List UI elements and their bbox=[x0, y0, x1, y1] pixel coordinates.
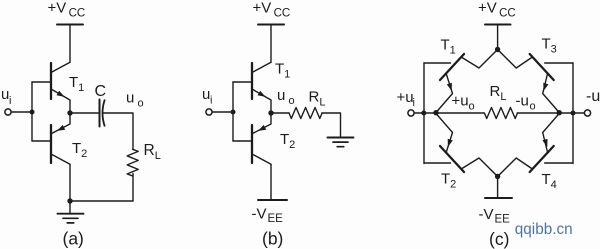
label -VEE (b) bbox=[252, 206, 284, 226]
label -u (c) bbox=[586, 88, 600, 105]
wire vertex to RL (c) bbox=[436, 112, 484, 114]
wire RL to bottom (a) bbox=[132, 174, 134, 202]
resistor RL (c) bbox=[484, 108, 517, 119]
wire left input bus (c) bbox=[423, 63, 425, 164]
wire top node to T3 (c) bbox=[498, 50, 532, 69]
wire input terminal (a) bbox=[11, 111, 32, 113]
wire T2 collector to VEE (b) bbox=[270, 164, 272, 200]
svg-text:-VEE: -VEE bbox=[479, 206, 511, 226]
junction right vertex (c) bbox=[557, 110, 562, 115]
svg-text:+VCC: +VCC bbox=[478, 0, 516, 20]
label u_i (a) bbox=[1, 86, 11, 107]
watermark qqibb.cn bbox=[515, 221, 573, 238]
junction emitter node (a) bbox=[67, 110, 72, 115]
resistor RL (a) bbox=[127, 149, 138, 176]
svg-text:i: i bbox=[413, 97, 415, 109]
wire T3 base lead (c) bbox=[545, 62, 573, 64]
power rail +VCC (c) bbox=[485, 24, 511, 26]
label RL (a) bbox=[144, 142, 161, 162]
svg-text:u: u bbox=[126, 90, 134, 107]
junction left bus node (c) bbox=[421, 111, 426, 116]
svg-text:(a): (a) bbox=[63, 229, 84, 249]
svg-text:o: o bbox=[530, 101, 536, 113]
terminal -u_i (c) bbox=[584, 110, 590, 116]
svg-text:i: i bbox=[9, 95, 11, 107]
svg-text:T4: T4 bbox=[542, 171, 557, 191]
svg-text:-u: -u bbox=[516, 93, 529, 110]
wire input bus (b) bbox=[232, 82, 234, 141]
junction top node (c) bbox=[495, 47, 500, 52]
transistor T4 (c) bbox=[530, 114, 560, 173]
svg-text:T2: T2 bbox=[441, 171, 456, 191]
wire T2 base lead (a) bbox=[32, 140, 51, 142]
svg-text:+u: +u bbox=[452, 93, 469, 110]
svg-text:-u: -u bbox=[586, 88, 600, 105]
label RL (b) bbox=[309, 89, 326, 109]
power rail -VEE (c) bbox=[485, 197, 512, 199]
ground (b) bbox=[328, 138, 354, 147]
power rail +VCC (b) bbox=[258, 24, 284, 26]
svg-text:RL: RL bbox=[309, 89, 326, 109]
junction bottom node (a) bbox=[67, 198, 72, 203]
capacitor C (a) bbox=[100, 100, 105, 127]
terminal u_i (a) bbox=[5, 109, 11, 115]
label RL (c) bbox=[490, 83, 507, 103]
label +VCC (c) bbox=[478, 0, 516, 20]
wire node to ground (a) bbox=[69, 201, 71, 214]
svg-text:o: o bbox=[289, 95, 295, 107]
junction right bus node (c) bbox=[571, 111, 576, 116]
svg-text:+u: +u bbox=[397, 89, 414, 106]
wire RL to right vertex (c) bbox=[517, 112, 559, 114]
label T4 (c) bbox=[542, 171, 557, 191]
label T2 (b) bbox=[280, 131, 295, 151]
ground (a) bbox=[58, 214, 84, 223]
wire right input bus (c) bbox=[572, 63, 574, 164]
wire RL to ground (b) bbox=[322, 113, 341, 137]
label C (a) bbox=[95, 83, 107, 100]
transistor T3 (c) bbox=[530, 54, 560, 113]
power rail -VEE (b) bbox=[258, 199, 287, 201]
wire VCC to T1 collector (a) bbox=[69, 25, 71, 63]
transistor T1 (c) bbox=[436, 54, 464, 113]
svg-text:T2: T2 bbox=[72, 140, 87, 160]
wire bottom node to T4 (c) bbox=[498, 158, 532, 177]
label (a) bbox=[63, 229, 84, 249]
wire T4 base lead (c) bbox=[545, 162, 573, 164]
svg-text:T2: T2 bbox=[280, 131, 295, 151]
wire input terminal (b) bbox=[212, 111, 233, 113]
transistor T1 (b) bbox=[252, 62, 271, 113]
svg-text:+VCC: +VCC bbox=[253, 0, 291, 20]
terminal +u_i (c) bbox=[408, 110, 414, 116]
transistor T2 (b) bbox=[252, 113, 271, 164]
terminal u_i (b) bbox=[206, 109, 212, 115]
wire T1 base lead (a) bbox=[32, 81, 51, 83]
transistor T2 (c) bbox=[436, 114, 464, 173]
label -u_o (c) bbox=[516, 93, 536, 113]
resistor RL (b) bbox=[289, 108, 322, 119]
transistor T2 (a) bbox=[51, 113, 70, 164]
label +u_i (c) bbox=[397, 89, 415, 109]
wire T2 collector (a) bbox=[69, 164, 71, 201]
label T1 (a) bbox=[69, 74, 84, 94]
label T2 (a) bbox=[72, 140, 87, 160]
label T3 (c) bbox=[542, 36, 557, 56]
svg-text:o: o bbox=[138, 98, 144, 110]
svg-text:i: i bbox=[210, 95, 212, 107]
junction bottom node (c) bbox=[495, 174, 500, 179]
svg-text:RL: RL bbox=[490, 83, 507, 103]
label +VCC (b) bbox=[253, 0, 291, 20]
svg-text:C: C bbox=[95, 83, 107, 100]
wire input bus (a) bbox=[31, 82, 33, 141]
junction left vertex (c) bbox=[433, 110, 438, 115]
svg-text:(c): (c) bbox=[489, 229, 509, 249]
wire bottom rail (a) bbox=[70, 200, 133, 202]
svg-text:o: o bbox=[469, 101, 475, 113]
wire T2 base lead (c) bbox=[424, 162, 451, 164]
label u_o (a) bbox=[126, 90, 144, 110]
svg-text:T3: T3 bbox=[542, 36, 557, 56]
wire T2 base lead (b) bbox=[233, 140, 252, 142]
junction input node (b) bbox=[231, 110, 236, 115]
svg-text:T1: T1 bbox=[275, 61, 290, 81]
wire capacitor to RL (a) bbox=[103, 113, 134, 150]
power rail +VCC (a) bbox=[57, 24, 83, 26]
label (c) bbox=[489, 229, 509, 249]
transistor T1 (a) bbox=[51, 62, 70, 113]
svg-text:qqibb.cn: qqibb.cn bbox=[515, 221, 573, 238]
wire node to capacitor (a) bbox=[70, 112, 100, 114]
wire T1 base lead (c) bbox=[424, 62, 451, 64]
svg-text:T1: T1 bbox=[69, 74, 84, 94]
label +VCC (a) bbox=[48, 0, 86, 20]
svg-text:T1: T1 bbox=[441, 37, 456, 57]
label u_i (b) bbox=[202, 86, 212, 107]
label (b) bbox=[262, 229, 283, 249]
svg-text:u: u bbox=[277, 87, 285, 104]
label -VEE (c) bbox=[479, 206, 511, 226]
label u_o (b) bbox=[277, 87, 295, 107]
wire output terminal (c) bbox=[559, 112, 584, 114]
junction input node (a) bbox=[30, 110, 35, 115]
wire input terminal (c) bbox=[414, 112, 436, 114]
wire T1 base lead (b) bbox=[233, 81, 252, 83]
wire bottom node to VEE (c) bbox=[497, 177, 499, 199]
wire VCC to top node (c) bbox=[497, 25, 499, 50]
svg-text:(b): (b) bbox=[262, 229, 283, 249]
svg-text:-VEE: -VEE bbox=[252, 206, 284, 226]
label T2 (c) bbox=[441, 171, 456, 191]
wire node to RL (b) bbox=[271, 112, 289, 114]
label +u_o (c) bbox=[452, 93, 475, 113]
wire top node to T1 (c) bbox=[462, 50, 498, 69]
svg-text:RL: RL bbox=[144, 142, 161, 162]
wire VCC to T1 collector (b) bbox=[270, 25, 272, 63]
wire bottom node to T2 (c) bbox=[462, 158, 498, 177]
label T1 (c) bbox=[441, 37, 456, 57]
svg-text:+VCC: +VCC bbox=[48, 0, 86, 20]
junction emitter node (b) bbox=[268, 110, 273, 115]
label T1 (b) bbox=[275, 61, 290, 81]
